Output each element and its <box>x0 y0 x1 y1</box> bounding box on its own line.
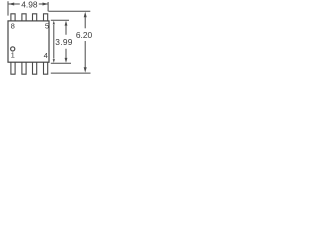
svg-text:1: 1 <box>11 50 15 59</box>
extension line top of 3.99 <box>51 19 69 21</box>
dimension line second (outer) lower segment with down arrow <box>65 49 67 59</box>
svg-text:6.20: 6.20 <box>76 30 93 40</box>
dimension line 3.99 inner with arrows both ends <box>53 21 55 25</box>
dimension line 4.98 left segment with arrow <box>9 3 20 5</box>
pin 2 lead (bottom row) <box>22 63 26 75</box>
pin 5 lead (top row) <box>44 14 48 21</box>
svg-text:5: 5 <box>45 21 49 30</box>
dimension line 6.20 lower segment with down arrow <box>84 41 86 69</box>
svg-text:4: 4 <box>44 51 48 60</box>
pin 3 lead (bottom row) <box>33 63 37 75</box>
pin 7 lead (top row) <box>22 14 26 21</box>
dimension line 6.20 upper segment with up arrow <box>84 12 87 17</box>
dimension line 4.98 right segment with arrow <box>39 3 48 5</box>
pin 1 index circle <box>11 47 15 51</box>
dimension line second (outer) upper segment with up arrow <box>65 21 68 26</box>
pin 4 lead (bottom row) <box>44 63 48 75</box>
extension line bottom of 6.20 <box>51 72 91 74</box>
package body U1 top view <box>8 21 49 62</box>
extension line top of 6.20 <box>48 10 90 12</box>
pin 6 lead (top row) <box>33 14 37 21</box>
extension line right of 4.98 <box>47 2 49 11</box>
pin 1 lead (bottom row) <box>11 63 15 75</box>
svg-text:3.99: 3.99 <box>55 37 73 47</box>
extension line left of 4.98 <box>7 1 9 15</box>
svg-text:4.98: 4.98 <box>21 0 38 9</box>
extension line bottom of 3.99 <box>51 62 71 64</box>
pin 8 lead (top row) <box>11 14 15 21</box>
svg-text:8: 8 <box>11 21 15 30</box>
